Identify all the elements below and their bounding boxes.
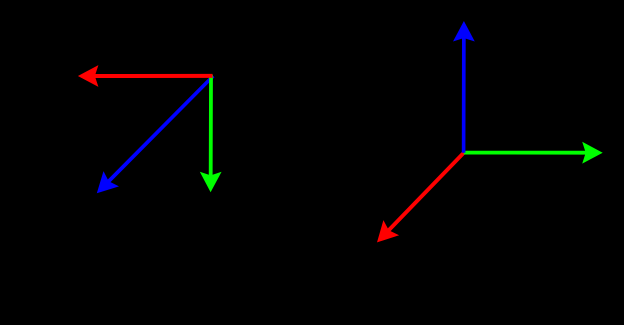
left frame x-axis arrow (red, left) (78, 65, 213, 87)
left frame z-axis arrow (blue, down-left) (97, 75, 215, 194)
left frame y-axis arrow (green, down) (200, 75, 222, 193)
right frame y-axis arrow (green, right) (464, 142, 603, 164)
right frame x-axis arrow (red, down-left) (377, 151, 465, 242)
right frame z-axis arrow (blue, up) (453, 21, 475, 153)
